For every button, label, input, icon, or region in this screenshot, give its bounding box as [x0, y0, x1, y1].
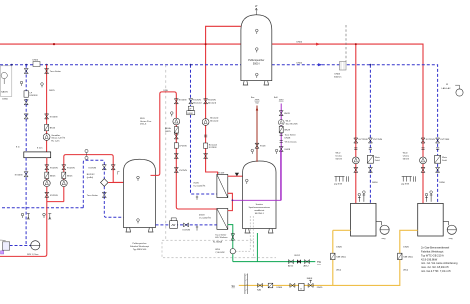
- svg-text:KV25/N: KV25/N: [50, 117, 58, 119]
- valve KV25/N chain1: [174, 99, 178, 104]
- flue duct dashed: [345, 25, 347, 62]
- vent pair left: [21, 213, 24, 218]
- svg-text:(μ-Art): (μ-Art): [87, 176, 94, 179]
- svg-text:AV12: AV12: [304, 265, 310, 268]
- red drop from manifold down to bottom-left: [0, 158, 47, 257]
- valve with vent KAV8: [308, 283, 313, 287]
- svg-text:KAV8: KAV8: [307, 277, 313, 280]
- drain manifold symbol: [335, 176, 349, 181]
- svg-text:KL 80/6A: KL 80/6A: [213, 241, 222, 244]
- svg-text:Sol: Sol: [255, 103, 259, 105]
- svg-text:AV12: AV12: [288, 265, 294, 268]
- svg-text:HD: Wo/twin: HD: Wo/twin: [215, 236, 228, 239]
- svg-text:BK25: BK25: [50, 175, 56, 177]
- svg-text:KV25/N: KV25/N: [183, 230, 191, 232]
- svg-text:Star 85 25/6: Star 85 25/6: [286, 122, 299, 125]
- svg-text:KVT25/N: KVT25/N: [373, 139, 382, 141]
- svg-text:F.twa: F.twa: [1, 239, 7, 242]
- thermometer: [171, 112, 174, 117]
- valve on loop right side: [111, 165, 115, 170]
- TAE fitting boiler2 gas riser: [398, 253, 402, 259]
- vessel Pufferspeicher WES 500: [124, 159, 156, 251]
- svg-text:V= 0,64m³/h: V= 0,64m³/h: [193, 184, 206, 187]
- mixing diamond: [101, 179, 109, 187]
- ZWK cold water line: [256, 106, 258, 162]
- svg-text:KV25/N: KV25/N: [15, 174, 23, 176]
- svg-text:max. zul. Vol. 18,20m³/h: max. zul. Vol. 18,20m³/h: [421, 265, 449, 269]
- expansion tank N25: [31, 241, 40, 250]
- svg-text:25/1-6: 25/1-6: [140, 124, 147, 126]
- svg-text:KV28: KV28: [260, 146, 266, 148]
- pump boiler1 WLD Ursina: [352, 157, 359, 164]
- valve KV25/N: [24, 172, 28, 177]
- svg-text:Defd: Defd: [375, 160, 380, 162]
- heat meter WMZ: [170, 218, 178, 228]
- manifold header bar: [24, 152, 51, 158]
- valve KV28 on ZWK: [255, 143, 259, 148]
- red HX1 top to Sanitas: [228, 175, 243, 177]
- green drinking water line: [228, 225, 315, 262]
- svg-text:Bestand: Bestand: [208, 101, 217, 104]
- svg-text:DN25: DN25: [165, 131, 171, 133]
- svg-text:KV25/N: KV25/N: [179, 170, 187, 172]
- svg-text:peg 38 38: peg 38 38: [401, 184, 409, 186]
- valve KH28 on ZWZ: [279, 111, 283, 116]
- svg-text:300mm: 300mm: [334, 77, 341, 79]
- svg-text:DN80: DN80: [277, 287, 283, 289]
- heat exchanger HX1: [217, 174, 228, 197]
- svg-text:2x Gas-Brennwertkessel: 2x Gas-Brennwertkessel: [421, 246, 450, 250]
- svg-text:56/1 B: 56/1 B: [336, 159, 343, 161]
- svg-text:BKLA: BKLA: [165, 127, 171, 130]
- taco setter valve: [45, 69, 49, 74]
- svg-text:DN25: DN25: [403, 246, 409, 248]
- svg-text:Bestand: Bestand: [209, 143, 218, 146]
- svg-text:DN5: DN5: [164, 90, 169, 92]
- svg-text:DN65: DN65: [335, 74, 341, 76]
- expansion vessel group bottom-left: [10, 245, 31, 247]
- svg-text:Defd: Defd: [442, 160, 447, 162]
- svg-text:KVT25/N: KVT25/N: [440, 139, 449, 141]
- blue return header: [0, 65, 438, 204]
- svg-text:Hu 1,2m: Hu 1,2m: [51, 140, 59, 142]
- wire dashed drain under vessel: [254, 257, 277, 259]
- left red drop with pump Grundfos: [46, 65, 48, 152]
- svg-text:modifiziert: modifiziert: [254, 209, 264, 212]
- red mixing loop box: [64, 155, 124, 202]
- fill box: [3, 242, 10, 250]
- svg-text:Ursina Pico: Ursina Pico: [140, 120, 152, 123]
- svg-text:SE 950-1: SE 950-1: [255, 213, 265, 215]
- internal coil connections dashed: [250, 216, 253, 251]
- svg-text:KV25/N: KV25/N: [193, 100, 201, 102]
- svg-text:(9kv): (9kv): [336, 270, 341, 272]
- svg-text:42,9-196,8kW: 42,9-196,8kW: [421, 257, 438, 261]
- svg-text:DN25: DN25: [317, 287, 323, 289]
- check valve Watz: [367, 155, 373, 163]
- svg-text:Ursina: Ursina: [403, 155, 410, 158]
- svg-text:(9kv): (9kv): [403, 270, 408, 272]
- svg-text:Grundfos: Grundfos: [51, 134, 61, 137]
- DN50 fitting on blue header: [33, 59, 41, 66]
- svg-text:Sanitas: Sanitas: [256, 203, 264, 206]
- svg-text:KV25/N: KV25/N: [208, 100, 216, 102]
- svg-text:Speicherwassererwärmer: Speicherwassererwärmer: [249, 206, 271, 209]
- sensor stems under blue lines: [196, 196, 198, 200]
- svg-text:KVT25/N: KVT25/N: [426, 139, 435, 141]
- gas meter G: [299, 283, 304, 290]
- svg-text:45/18: 45/18: [199, 215, 205, 217]
- svg-text:ZWZ: ZWZ: [279, 100, 284, 102]
- purple warm water line: [232, 150, 280, 200]
- svg-text:Taco Setter: Taco Setter: [285, 134, 296, 137]
- svg-text:mag: mag: [449, 238, 453, 240]
- valve KV25/N Bestand chain3: [204, 99, 208, 104]
- svg-text:KVT25/N: KVT25/N: [359, 139, 368, 141]
- svg-text:Bestand: Bestand: [210, 117, 219, 120]
- svg-text:peg 38 38: peg 38 38: [334, 184, 342, 186]
- svg-text:WLD: WLD: [286, 121, 291, 123]
- pump Grundfos Gmax: [43, 134, 50, 141]
- svg-text:V= 0,46m³/h: V= 0,46m³/h: [199, 216, 212, 219]
- svg-text:Bestand: Bestand: [210, 119, 219, 122]
- LF / DN32 fittings on blue chain: [188, 106, 193, 110]
- heat exchanger HX2: [217, 209, 228, 230]
- svg-text:TW: TW: [317, 261, 322, 264]
- svg-text:KV25/N: KV25/N: [209, 147, 217, 149]
- svg-text:min. bei d.T 5K: 7,43 m³/h: min. bei d.T 5K: 7,43 m³/h: [421, 269, 451, 273]
- ZWZ circulation line magenta: [280, 104, 282, 201]
- pump heating circuit 2: [60, 180, 67, 187]
- svg-text:Typ WES 500: Typ WES 500: [133, 249, 147, 251]
- blue dashed cross line: [2, 207, 83, 209]
- KAV25 strainer box top-left: [1, 66, 12, 101]
- svg-text:Typ WTC-GB 210 A: Typ WTC-GB 210 A: [421, 253, 444, 257]
- sensor fittings above boiler: [358, 194, 365, 202]
- pump WLD Ursina Pico: [173, 118, 180, 125]
- taco setter on green: [231, 234, 235, 241]
- pump Bestand: [202, 119, 209, 126]
- red supply header: [0, 26, 423, 203]
- blue return buffer to HX2: [156, 224, 217, 226]
- svg-text:N25 1,2 bar: N25 1,2 bar: [27, 253, 39, 256]
- wire red riser boiler1: [355, 44, 357, 203]
- svg-text:DN50: DN50: [372, 182, 378, 184]
- svg-text:DN50: DN50: [297, 62, 303, 64]
- WLE electric heater dashed enclosure: [162, 240, 254, 258]
- blue drop from manifold to expansion group: [25, 158, 27, 246]
- svg-text:8 m: 8 m: [16, 147, 20, 149]
- blue secondary loop to vessel: [83, 160, 123, 217]
- gas shutoff valve KA2: [258, 283, 263, 287]
- svg-text:KH28: KH28: [285, 149, 291, 151]
- svg-text:Watz: Watz: [375, 156, 380, 159]
- junction dots on headers: [53, 43, 357, 45]
- svg-text:DN25: DN25: [49, 90, 55, 92]
- sensor wells in buffer: [255, 29, 258, 34]
- buffer vessel Pufferspeicher 5000 l: [241, 5, 278, 99]
- boiler body: [351, 203, 377, 236]
- svg-text:56/1 B: 56/1 B: [403, 159, 410, 161]
- red chain x176 to HX2: [176, 97, 217, 210]
- wire red to buffer top: [206, 26, 241, 174]
- svg-text:BK25: BK25: [50, 128, 56, 130]
- svg-text:Watz: Watz: [442, 156, 447, 159]
- boundary dashed line existing/new: [165, 65, 167, 241]
- pump heating circuit 1: [43, 180, 50, 187]
- svg-text:BU2 R2: BU2 R2: [87, 174, 95, 176]
- red line loop DN25 into vessel dome: [151, 92, 177, 175]
- wall crossing on gas line: [245, 274, 248, 295]
- svg-text:Gmax 2,2m³/h: Gmax 2,2m³/h: [51, 137, 66, 140]
- vent tick near vessel top: [118, 172, 120, 175]
- svg-text:KH28: KH28: [284, 113, 290, 115]
- svg-text:KV25/N: KV25/N: [50, 195, 58, 197]
- svg-text:45 kW: 45 kW: [218, 172, 225, 174]
- flow arrow blue: [318, 63, 323, 66]
- svg-text:Fabrikat Weishaupt: Fabrikat Weishaupt: [130, 245, 149, 248]
- svg-text:DN50: DN50: [33, 59, 39, 61]
- svg-text:Taco Setter: Taco Setter: [87, 194, 98, 197]
- TAE fitting boiler1 gas riser: [331, 253, 335, 259]
- svg-text:KV25/N: KV25/N: [67, 167, 75, 169]
- valves on green line: [289, 260, 294, 264]
- valve KV25/N: [45, 165, 49, 170]
- svg-text:DN50: DN50: [2, 99, 8, 101]
- svg-text:WLD: WLD: [403, 153, 408, 155]
- svg-text:VS & U-toos: VS & U-toos: [285, 141, 298, 144]
- gas filter: [268, 283, 273, 288]
- svg-text:DN25/N: DN25/N: [30, 95, 38, 97]
- svg-text:DN28: DN28: [285, 137, 291, 139]
- svg-text:DN32: DN32: [188, 113, 194, 115]
- flow arrow red: [316, 43, 321, 46]
- svg-text:KV25/N: KV25/N: [50, 167, 58, 169]
- svg-text:5000 l: 5000 l: [253, 63, 260, 66]
- valve on blue drop: [24, 69, 28, 74]
- svg-text:RV02: RV02: [295, 255, 301, 257]
- svg-text:SA: SA: [232, 285, 236, 288]
- svg-text:70/25: 70/25: [193, 183, 199, 185]
- svg-text:Bestand: Bestand: [193, 101, 202, 104]
- svg-text:WLD: WLD: [336, 153, 341, 155]
- boiler unit 1: [334, 138, 389, 240]
- boiler unit 2: [401, 138, 456, 240]
- svg-text:LAS-LAC: LAS-LAC: [442, 87, 452, 90]
- level transmitter LT: [255, 8, 257, 15]
- svg-text:TAE (9kv): TAE (9kv): [336, 256, 346, 259]
- svg-text:DN50: DN50: [297, 42, 303, 44]
- svg-text:WLE: WLE: [215, 249, 220, 251]
- burner: [376, 222, 381, 226]
- wire blue riser boiler1: [369, 65, 371, 204]
- red tie line to mixing loop: [47, 201, 64, 203]
- svg-text:BK28: BK28: [285, 129, 291, 131]
- svg-text:DN25: DN25: [336, 246, 342, 248]
- svg-text:Fabrikat Weishaupt: Fabrikat Weishaupt: [421, 250, 444, 254]
- wire blue to HX1: [191, 65, 217, 194]
- svg-text:BK25: BK25: [67, 175, 73, 177]
- svg-text:LF25/N: LF25/N: [179, 146, 187, 148]
- vent circles on loop top: [85, 149, 88, 159]
- boiler spec text block: [421, 246, 458, 273]
- svg-text:KV25/N: KV25/N: [179, 100, 187, 102]
- svg-text:Ursina: Ursina: [336, 155, 343, 158]
- svg-text:KV25/N: KV25/N: [89, 167, 97, 169]
- pump boiler2 WLD Ursina: [420, 157, 427, 164]
- svg-text:Taco Setter: Taco Setter: [50, 70, 61, 73]
- svg-text:Pufferspeicher: Pufferspeicher: [132, 242, 146, 245]
- svg-text:DN50: DN50: [439, 182, 445, 184]
- svg-text:KAV25: KAV25: [1, 91, 8, 94]
- svg-text:7,0L/U/W: 7,0L/U/W: [215, 252, 225, 254]
- gas line yellow: [239, 230, 418, 285]
- svg-text:TAE (9kv): TAE (9kv): [403, 256, 413, 259]
- svg-text:G: G: [300, 289, 302, 291]
- svg-text:ZWK: ZWK: [255, 100, 260, 102]
- valve KV25/N Bestand chain2: [189, 99, 193, 104]
- left blue drop with valves: [25, 65, 27, 152]
- svg-text:LT: LT: [255, 5, 258, 8]
- pump circulation: [278, 120, 284, 126]
- svg-text:Taco Setter: Taco Setter: [215, 233, 226, 236]
- red HX1 bottom to HX2 top chain: [228, 193, 233, 210]
- vessel Sanitas SE 950-1: [243, 161, 276, 233]
- svg-text:min. zul. Vol. keine Anforderu: min. zul. Vol. keine Anforderung: [421, 261, 458, 265]
- flue silencer DN65: [340, 62, 347, 71]
- svg-text:mag: mag: [382, 238, 386, 240]
- svg-text:WLD: WLD: [140, 118, 145, 120]
- vent pair right: [43, 213, 46, 218]
- svg-text:8 mm: 8 mm: [37, 148, 43, 150]
